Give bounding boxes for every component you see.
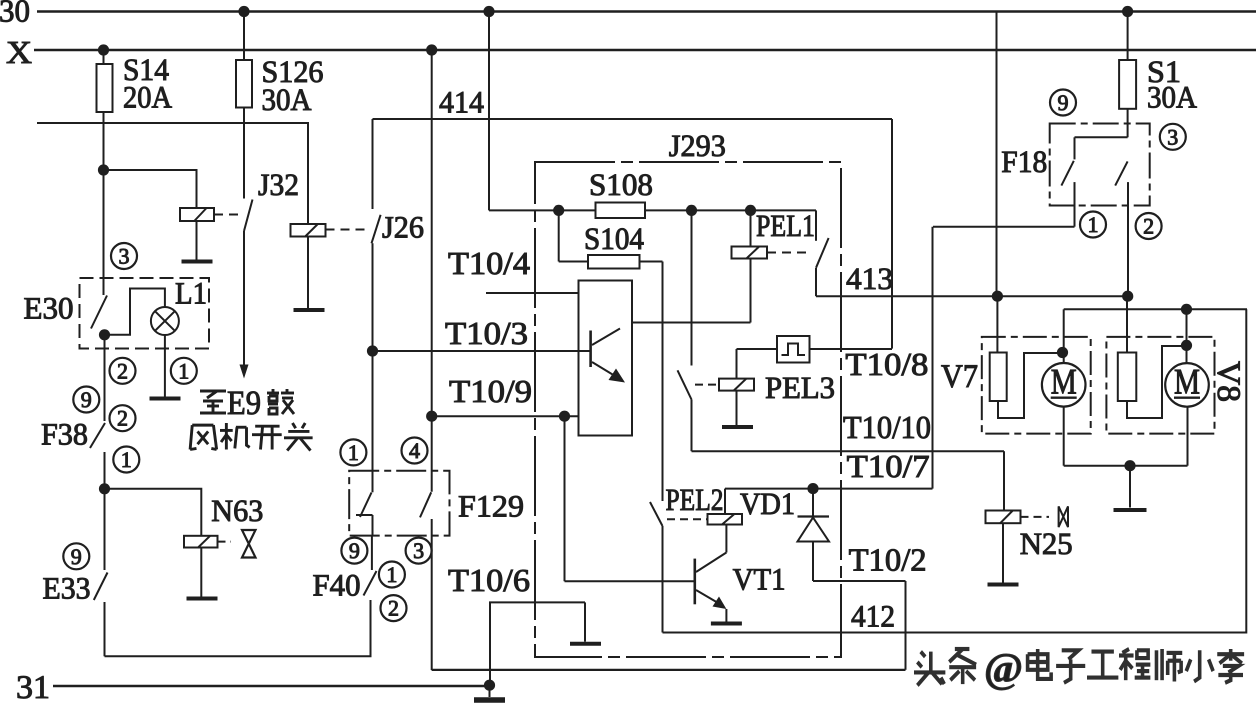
- svg-text:J293: J293: [669, 128, 726, 163]
- svg-text:4: 4: [409, 438, 420, 463]
- svg-text:3: 3: [1167, 124, 1178, 149]
- svg-text:E9: E9: [227, 385, 261, 422]
- svg-text:1: 1: [1088, 212, 1099, 237]
- svg-text:VD1: VD1: [740, 486, 795, 521]
- svg-text:T10/8: T10/8: [845, 346, 928, 382]
- svg-text:9: 9: [71, 544, 82, 569]
- svg-text:S108: S108: [589, 167, 653, 202]
- svg-text:T10/4: T10/4: [448, 245, 530, 281]
- svg-text:1: 1: [348, 440, 359, 465]
- svg-text:F38: F38: [41, 417, 88, 452]
- svg-text:PEL1: PEL1: [756, 208, 815, 243]
- svg-text:2: 2: [117, 406, 128, 431]
- svg-text:1: 1: [178, 358, 189, 383]
- svg-text:9: 9: [81, 387, 92, 412]
- svg-text:J32: J32: [258, 167, 299, 202]
- svg-text:X: X: [6, 34, 32, 70]
- svg-text:412: 412: [851, 599, 895, 634]
- svg-text:F18: F18: [1001, 144, 1047, 179]
- svg-text:T10/6: T10/6: [448, 562, 530, 598]
- svg-text:J26: J26: [382, 210, 424, 245]
- svg-text:N25: N25: [1020, 526, 1073, 561]
- svg-text:9: 9: [1058, 90, 1069, 115]
- svg-text:T10/2: T10/2: [849, 542, 927, 578]
- svg-text:20A: 20A: [123, 80, 173, 115]
- svg-text:M: M: [1051, 362, 1077, 402]
- svg-text:T10/7: T10/7: [847, 448, 930, 484]
- svg-text:T10/10: T10/10: [843, 409, 931, 445]
- svg-text:T10/3: T10/3: [445, 315, 528, 351]
- svg-text:S104: S104: [584, 221, 644, 256]
- svg-text:30A: 30A: [262, 82, 313, 117]
- svg-text:T10/9: T10/9: [449, 373, 532, 409]
- svg-text:V7: V7: [941, 359, 978, 395]
- svg-text:2: 2: [117, 358, 128, 383]
- svg-text:F40: F40: [313, 568, 361, 603]
- svg-text:414: 414: [439, 85, 484, 120]
- svg-text:V8: V8: [1210, 361, 1246, 402]
- svg-text:PEL3: PEL3: [765, 370, 835, 405]
- svg-text:L1: L1: [175, 276, 207, 311]
- svg-text:N63: N63: [211, 493, 263, 528]
- svg-text:30A: 30A: [1147, 80, 1198, 115]
- svg-text:3: 3: [119, 244, 130, 269]
- svg-text:1: 1: [386, 562, 397, 587]
- svg-text:@: @: [984, 646, 1023, 692]
- svg-text:1: 1: [121, 447, 132, 472]
- svg-text:E33: E33: [43, 571, 91, 606]
- svg-text:3: 3: [413, 538, 424, 563]
- svg-text:2: 2: [1143, 214, 1154, 239]
- svg-text:31: 31: [16, 670, 50, 703]
- svg-text:M: M: [1174, 362, 1200, 402]
- svg-text:VT1: VT1: [733, 562, 786, 597]
- svg-text:F129: F129: [458, 489, 524, 524]
- svg-text:9: 9: [349, 538, 360, 563]
- svg-text:30: 30: [0, 0, 30, 29]
- svg-text:E30: E30: [24, 291, 74, 326]
- svg-text:413: 413: [846, 261, 893, 296]
- svg-text:2: 2: [388, 596, 399, 621]
- svg-text:PEL2: PEL2: [666, 482, 724, 517]
